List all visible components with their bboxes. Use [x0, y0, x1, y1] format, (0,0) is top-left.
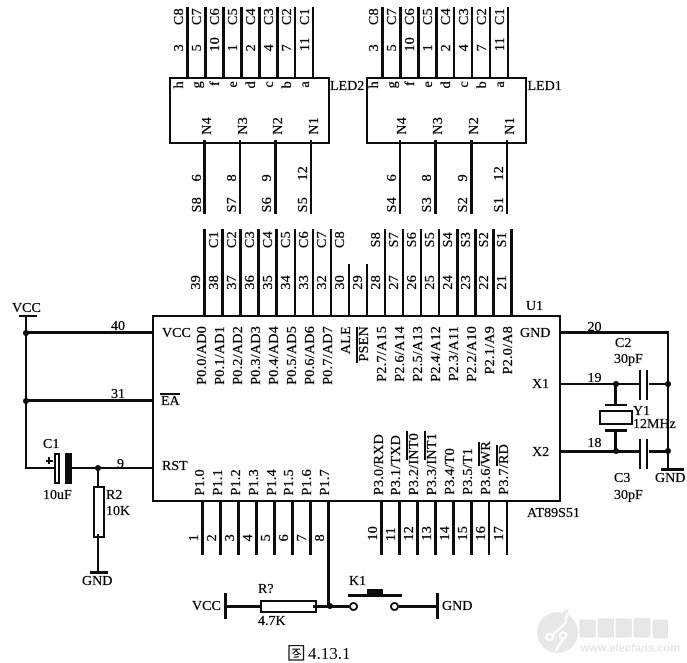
- net S7 at LED2: [226, 197, 240, 212]
- pin name h LED1: [368, 81, 382, 88]
- pin name RST U1: [162, 460, 188, 474]
- net S8 at U1 pin 28: [370, 232, 384, 247]
- pin number 36 U1: [244, 275, 258, 290]
- junction VCC/pin31: [23, 398, 29, 404]
- net C6 at U1 pin 34: [298, 231, 312, 248]
- wire LED1 digit pin 8: [434, 140, 437, 214]
- net C7 at U1 pin 33: [316, 231, 330, 248]
- pin number 30 U1: [334, 275, 348, 290]
- overline of INT1: [424, 431, 427, 460]
- capacitor C3 plate 1: [639, 439, 642, 470]
- wire LED1 seg pin 10: [417, 7, 420, 77]
- net C3 at LED1: [458, 8, 472, 25]
- pin name N4 LED1: [396, 117, 410, 135]
- net S8 at LED2: [191, 197, 205, 212]
- pin number 6 U1: [278, 534, 292, 541]
- pin name a LED2: [299, 81, 313, 88]
- pin name d LED1: [440, 81, 454, 88]
- switch K1 terminal 1: [349, 602, 358, 611]
- pin number 16 U1: [475, 526, 489, 541]
- pin number 2 LED1: [440, 44, 454, 51]
- wire LED1 seg pin 7: [489, 7, 492, 77]
- wire LED2 digit pin 8: [239, 140, 242, 214]
- crystal Y1 bottom electrode: [605, 429, 627, 432]
- pin name P2.0/A8 U1: [502, 326, 516, 374]
- net C8 at U1 pin 32: [334, 231, 348, 248]
- pin number 35 U1: [262, 275, 276, 290]
- pin name P1.1 U1: [212, 469, 226, 496]
- net S4 at U1 pin 24: [442, 232, 456, 247]
- pin name P0.2/AD2 U1: [232, 326, 246, 385]
- wire U1 pin 3: [237, 500, 240, 555]
- wire LED2 seg pin 4: [276, 7, 279, 77]
- pin name P3.1/TXD U1: [390, 435, 404, 495]
- pin number 37 U1: [226, 275, 240, 290]
- pin name P2.6/A14 U1: [394, 326, 408, 382]
- pin name P1.4 U1: [266, 469, 280, 496]
- wire U1 pin 6: [291, 500, 294, 555]
- pin name P3.5/T1 U1: [462, 448, 476, 495]
- 7-seg display LED1 box: [366, 77, 527, 144]
- wire U1 pin 38: [221, 229, 224, 317]
- pin name P0.0/AD0 U1: [196, 326, 210, 385]
- net C7 at LED1: [386, 8, 400, 25]
- refdes K1: [349, 575, 366, 589]
- wire U1 pin 5: [273, 500, 276, 555]
- wire pin 40 to VCC: [25, 331, 153, 334]
- pin number 8 U1: [314, 534, 328, 541]
- pin name P2.3/A11 U1: [448, 326, 462, 381]
- wire U1 pin 1: [201, 500, 204, 555]
- pin name P0.1/AD1 U1: [214, 326, 228, 385]
- net S3 at U1 pin 23: [460, 232, 474, 247]
- VCC symbol bar: [19, 315, 38, 318]
- pin name PSEN U1: [358, 326, 372, 361]
- wire U1 pin 23: [474, 229, 477, 317]
- wire U1 pin 36: [257, 229, 260, 317]
- wire LED2 seg pin 10: [222, 7, 225, 77]
- wire LED2 seg pin 2: [258, 7, 261, 77]
- net C2 at U1 pin 38: [226, 231, 240, 248]
- 7-seg display LED2 box: [169, 77, 330, 144]
- overline of RD: [496, 445, 499, 466]
- pin number 3 LED1: [368, 44, 382, 51]
- pin number 1 LED1: [422, 44, 436, 51]
- wire U1 pin 4: [255, 500, 258, 555]
- pin number 2 LED2: [245, 44, 259, 51]
- value 10K R2: [106, 505, 130, 519]
- pin number 27 U1: [388, 275, 402, 290]
- wire LED1 seg pin 3: [381, 7, 384, 77]
- wire U1 pin 13: [434, 500, 437, 555]
- wire K1 to GND: [399, 605, 437, 608]
- capacitor C1 plus sign: [46, 460, 53, 462]
- pin number 29 U1: [352, 275, 366, 290]
- ground label right: [655, 472, 685, 486]
- pin number 28 U1: [370, 275, 384, 290]
- pin name GND U1: [520, 327, 550, 341]
- junction RST node: [95, 465, 101, 471]
- pin number 12 LED2: [297, 166, 311, 181]
- switch K1 terminal 2: [390, 602, 399, 611]
- pin number 15 U1: [457, 526, 471, 541]
- wire pin 20 to GND rail: [559, 331, 669, 334]
- wire LED2 digit pin 12: [310, 140, 313, 214]
- wire LED2 seg pin 3: [186, 7, 189, 77]
- pin name N1 LED1: [504, 117, 518, 135]
- pin number 17 U1: [493, 526, 507, 541]
- wire C1 to RST pin 9: [72, 467, 153, 470]
- resistor R? body: [260, 600, 317, 614]
- pin number 1 U1: [188, 534, 202, 541]
- wire X1 node to Y1: [614, 384, 617, 404]
- pin number 11 LED1: [494, 37, 508, 51]
- net C5 at LED2: [227, 8, 241, 25]
- pin name c LED1: [458, 81, 472, 88]
- pin number 11 U1: [385, 527, 399, 541]
- pin number 26 U1: [406, 275, 420, 290]
- pin name P0.4/AD4 U1: [268, 326, 282, 385]
- wire U1 pin 10: [380, 500, 383, 555]
- pin name g LED2: [191, 81, 205, 88]
- overline of INT0: [406, 431, 409, 460]
- wire LED1 seg pin 5: [399, 7, 402, 77]
- pin number 5 LED2: [191, 44, 205, 51]
- pin name P2.2/A10 U1: [466, 326, 480, 382]
- capacitor C1 negative plate: [54, 453, 60, 484]
- net C8 at LED1: [368, 8, 382, 25]
- ground label bottom: [442, 600, 472, 614]
- pin name N4 LED2: [201, 117, 215, 135]
- pin number 9 U1: [117, 458, 124, 472]
- net C1 at LED1: [494, 8, 508, 25]
- VCC terminal bar bottom: [224, 593, 227, 619]
- pin name P2.7/A15 U1: [376, 326, 390, 382]
- pin number 5 U1: [260, 534, 274, 541]
- switch K1 button cap: [367, 589, 383, 595]
- overline of WR: [478, 442, 481, 466]
- pin number 11 LED2: [299, 37, 313, 51]
- wire VCC to R?: [227, 605, 260, 608]
- pin name P0.7/AD7 U1: [322, 326, 336, 385]
- crystal Y1 top electrode: [605, 404, 627, 407]
- wire U1 pin 15: [470, 500, 473, 555]
- pin name P1.7 U1: [319, 469, 333, 496]
- pin name P1.3 U1: [248, 469, 262, 496]
- wire LED1 digit pin 12: [506, 140, 509, 214]
- pin number 20 U1: [588, 321, 602, 335]
- pin number 19 U1: [588, 372, 602, 386]
- pin number 4 LED2: [263, 44, 277, 51]
- pin number 13 U1: [421, 526, 435, 541]
- op MCU U1 box: [152, 315, 561, 502]
- pin number 5 LED1: [386, 44, 400, 51]
- GND terminal bar bottom: [436, 593, 439, 619]
- pin number 7 LED2: [281, 44, 295, 51]
- pin number 23 U1: [460, 275, 474, 290]
- pin number 4 U1: [242, 534, 256, 541]
- wire rail to C1: [25, 467, 54, 470]
- wire U1 pin 26: [420, 229, 423, 317]
- pin name g LED1: [386, 81, 400, 88]
- pin number 7 U1: [296, 534, 310, 541]
- resistor R2 body: [93, 486, 105, 539]
- net S5 at LED2: [297, 197, 311, 212]
- net C7 at LED2: [191, 8, 205, 25]
- net C1 at LED2: [299, 8, 313, 25]
- caption figure 4.13.1: [288, 645, 368, 662]
- pin number 6 LED2: [191, 174, 205, 181]
- pin number 32 U1: [316, 275, 330, 290]
- wire pin 18 to C3: [559, 450, 639, 453]
- pin name N1 LED2: [308, 117, 322, 135]
- pin number 34 U1: [280, 275, 294, 290]
- net S3 at LED1: [421, 197, 435, 212]
- wire U1 pin 8: [327, 500, 330, 606]
- overline of EA: [160, 393, 180, 395]
- wire Y1 to X2 node: [614, 432, 617, 451]
- pin name b LED2: [281, 81, 295, 88]
- wire node to R2: [97, 468, 100, 486]
- pin number 7 LED1: [476, 44, 490, 51]
- net C6 at LED1: [404, 8, 418, 25]
- pin name P1.2 U1: [230, 469, 244, 496]
- net C4 at LED1: [440, 8, 454, 25]
- pin number 10 U1: [367, 526, 381, 541]
- net C4 at U1 pin 36: [262, 231, 276, 248]
- pin name P3.6/WR U1: [480, 441, 494, 495]
- pin name P3.0/RXD U1: [373, 434, 387, 495]
- junction X1 node: [613, 381, 619, 387]
- wire pin 31 to VCC rail: [25, 399, 153, 402]
- wire U1 pin 27: [402, 229, 405, 317]
- watermark logo circle: [527, 595, 687, 663]
- switch K1 actuator bar: [348, 594, 403, 597]
- wire R? to K1: [313, 605, 349, 608]
- refdes U1: [526, 300, 543, 314]
- pin number 39 U1: [190, 275, 204, 290]
- pin name P0.6/AD6 U1: [304, 326, 318, 385]
- pin name X1 U1: [532, 378, 549, 392]
- net C2 at LED2: [281, 8, 295, 25]
- pin number 4 LED1: [458, 44, 472, 51]
- net C5 at LED1: [422, 8, 436, 25]
- wire U1 pin 14: [452, 500, 455, 555]
- pin name N2 LED1: [468, 117, 482, 135]
- wire U1 pin 16: [488, 500, 491, 555]
- pin name P3.7/RD U1: [498, 444, 512, 495]
- wire U1 pin 35: [275, 229, 278, 317]
- label LED1: [528, 80, 562, 94]
- refdes C3: [614, 472, 630, 486]
- junction X2 node: [613, 448, 619, 454]
- wire U1 pin 28: [384, 229, 387, 317]
- wire U1 pin 21: [510, 229, 513, 317]
- net C3 at U1 pin 37: [244, 231, 258, 248]
- wire LED1 digit pin 9: [470, 140, 473, 214]
- wire U1 pin 7: [309, 500, 312, 555]
- pin name b LED1: [476, 81, 490, 88]
- pin number 24 U1: [442, 275, 456, 290]
- pin name f LED1: [404, 81, 418, 86]
- wire LED2 digit pin 6: [203, 140, 206, 214]
- pin name N3 LED1: [432, 117, 446, 135]
- net C2 at LED1: [476, 8, 490, 25]
- wire LED1 seg pin 11: [507, 7, 510, 77]
- wire LED1 seg pin 1: [435, 7, 438, 77]
- pin number 25 U1: [424, 275, 438, 290]
- wire U1 pin 22: [492, 229, 495, 317]
- pin name N2 LED2: [272, 117, 286, 135]
- refdes C2: [615, 337, 631, 351]
- net S5 at U1 pin 25: [424, 232, 438, 247]
- pin name EA U1: [161, 395, 180, 409]
- net C6 at LED2: [209, 8, 223, 25]
- value 10uF C1: [43, 489, 72, 503]
- wire LED2 seg pin 7: [294, 7, 297, 77]
- net C3 at LED2: [263, 8, 277, 25]
- pin name a LED1: [494, 81, 508, 88]
- net C1 at U1 pin 39: [208, 231, 222, 248]
- value 30pF C3: [614, 489, 643, 503]
- wire C2 to GND rail: [649, 383, 669, 386]
- pin number 40 U1: [111, 320, 125, 334]
- pin name P3.2/INT0 U1: [408, 433, 422, 495]
- wire U1 pin 24: [456, 229, 459, 317]
- net C8 at LED2: [173, 8, 187, 25]
- net S4 at LED1: [386, 197, 400, 212]
- pin name X2 U1: [532, 446, 549, 460]
- net C4 at LED2: [245, 8, 259, 25]
- part AT89S51: [527, 507, 580, 521]
- junction pin8/R?/K1: [327, 603, 333, 609]
- pin name N3 LED2: [237, 117, 251, 135]
- pin name f LED2: [209, 81, 223, 86]
- pin number 33 U1: [298, 275, 312, 290]
- wire LED1 digit pin 6: [399, 140, 402, 214]
- refdes R2: [106, 489, 122, 503]
- pin number 12 U1: [403, 526, 417, 541]
- net S7 at U1 pin 27: [388, 232, 402, 247]
- junction C2/rail: [665, 381, 671, 387]
- wire LED1 seg pin 2: [453, 7, 456, 77]
- capacitor C3 plate 2: [646, 439, 649, 470]
- wire U1 pin 12: [416, 500, 419, 555]
- net S6 at LED2: [261, 197, 275, 212]
- pin number 12 LED1: [493, 166, 507, 181]
- power VCC bottom: [192, 600, 221, 614]
- net S1 at LED1: [493, 197, 507, 212]
- pin name e LED2: [227, 81, 241, 88]
- wire LED2 seg pin 11: [312, 7, 315, 77]
- pin name P1.0 U1: [194, 469, 208, 496]
- pin name c LED2: [263, 81, 277, 88]
- capacitor C1 positive plate: [65, 453, 72, 484]
- pin name P2.1/A9 U1: [484, 326, 498, 374]
- value 30pF C2: [614, 353, 643, 367]
- pin number 31 U1: [111, 388, 125, 402]
- pin number 2 U1: [206, 534, 220, 541]
- wire U1 pin 2: [219, 500, 222, 555]
- power VCC top left: [12, 302, 41, 316]
- wire LED2 digit pin 9: [274, 140, 277, 214]
- pin number 22 U1: [478, 275, 492, 290]
- junction C3/rail: [665, 448, 671, 454]
- pin number 9 LED2: [261, 174, 275, 181]
- pin number 8 LED1: [421, 174, 435, 181]
- wire U1 pin 37: [239, 229, 242, 317]
- ground symbol left: [90, 571, 108, 574]
- pin name P3.4/T0 U1: [444, 448, 458, 495]
- pin name ALE U1: [340, 326, 354, 354]
- pin number 8 LED2: [226, 174, 240, 181]
- pin number 9 LED1: [457, 174, 471, 181]
- pin number 1 LED2: [227, 44, 241, 51]
- wire U1 pin 39: [203, 229, 206, 317]
- pin name e LED1: [422, 81, 436, 88]
- net S2 at U1 pin 22: [478, 232, 492, 247]
- pin number 21 U1: [496, 275, 510, 290]
- pin name P2.5/A13 U1: [412, 326, 426, 382]
- net S2 at LED1: [457, 197, 471, 212]
- wire C3 to GND rail: [649, 450, 669, 453]
- wire U1 pin 25: [438, 229, 441, 317]
- wire R2 to GND: [97, 534, 100, 571]
- overline of PSEN: [356, 327, 359, 363]
- pin name P2.4/A12 U1: [430, 326, 444, 382]
- pin name d LED2: [245, 81, 259, 88]
- wire U1 pin 32: [330, 229, 333, 317]
- wire U1 pin 33: [312, 229, 315, 317]
- junction VCC/pin40: [23, 330, 29, 336]
- wire VCC rail left: [25, 317, 28, 468]
- wire LED2 seg pin 5: [204, 7, 207, 77]
- pin name P0.5/AD5 U1: [286, 326, 300, 385]
- wire LED1 seg pin 4: [471, 7, 474, 77]
- value 4.7K R?: [258, 615, 286, 629]
- net C5 at U1 pin 35: [280, 231, 294, 248]
- net S1 at U1 pin 21: [496, 232, 510, 247]
- capacitor C2 plate 2: [646, 370, 649, 401]
- pin number 6 LED1: [386, 174, 400, 181]
- pin name P3.3/INT1 U1: [426, 433, 440, 495]
- pin number 10 LED2: [209, 37, 223, 52]
- ground label left: [82, 575, 112, 589]
- pin name h LED2: [173, 81, 187, 88]
- pin number 3 U1: [224, 534, 238, 541]
- pin number 14 U1: [439, 526, 453, 541]
- label LED2: [330, 80, 364, 94]
- wire U1 pin 30: [348, 264, 351, 317]
- wire U1 pin 11: [398, 500, 401, 555]
- svg-text:www.elecfans.com: www.elecfans.com: [580, 643, 681, 655]
- refdes Y1: [633, 405, 650, 419]
- wire U1 pin 34: [294, 229, 297, 317]
- pin name P1.6 U1: [301, 469, 315, 496]
- pin name VCC U1: [162, 327, 191, 341]
- refdes C1: [43, 438, 59, 452]
- pin number 38 U1: [208, 275, 222, 290]
- ground symbol right: [661, 468, 684, 471]
- value 12MHz Y1: [633, 418, 676, 432]
- refdes R?: [258, 583, 274, 597]
- capacitor C2 plate 1: [639, 370, 642, 401]
- crystal Y1 body: [599, 410, 633, 425]
- pin name P1.5 U1: [283, 469, 297, 496]
- wire LED2 seg pin 1: [240, 7, 243, 77]
- wire U1 pin 29: [366, 264, 369, 317]
- net S6 at U1 pin 26: [406, 232, 420, 247]
